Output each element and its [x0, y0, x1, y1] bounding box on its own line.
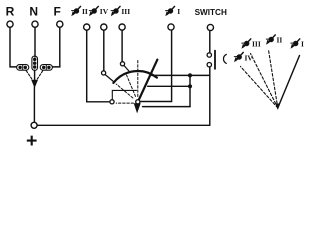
contact C (position III) [120, 62, 124, 66]
lamp icon I (top row) [165, 6, 174, 16]
contact A (position II) [110, 100, 114, 104]
lamp icon IV (top row) [89, 6, 98, 16]
indicator lamp IV (fan) [234, 52, 243, 62]
wire N winding to armature [34, 70, 36, 79]
dashed ray to IV [241, 67, 278, 108]
terminal F [57, 21, 63, 27]
terminal lamp IV [101, 24, 107, 30]
wire switch terminal down [209, 31, 211, 53]
svg-text:IV: IV [245, 54, 254, 63]
dashed radius to contact B [116, 84, 133, 98]
dashed ray to II [269, 50, 278, 108]
lamp icon III (top row) [111, 6, 120, 16]
svg-text:I: I [301, 40, 304, 49]
terminal lamp I [168, 24, 174, 30]
bottom bus wire [37, 124, 210, 126]
lamp icon II (top row) [71, 6, 80, 16]
terminal lamp III [119, 24, 125, 30]
wire armature to plus terminal [33, 87, 35, 122]
coil element middle (N winding, vertical) [32, 56, 38, 70]
dashed radius to contact A [116, 102, 133, 104]
wire switch lower contact to bus [209, 67, 211, 125]
svg-text:+: + [26, 130, 37, 147]
wire lamp IV down to contact B [103, 30, 105, 71]
solid ray to I [278, 56, 300, 108]
wire wiper to jumper (wire2) [148, 85, 190, 87]
svg-text:III: III [121, 7, 130, 16]
wire F down [52, 27, 59, 67]
terminal N [32, 21, 38, 27]
fan convergence arrow [275, 104, 280, 111]
jumper vertical [189, 75, 191, 106]
indicator lamp III (fan) [242, 39, 251, 49]
junction dot wire2 [188, 84, 192, 88]
link contact C to arc [124, 66, 130, 73]
switch blade [214, 51, 216, 69]
selector pivot [136, 100, 140, 104]
wire N down [34, 27, 36, 57]
svg-text:II: II [277, 36, 283, 45]
dashed link F winding to armature [37, 71, 43, 80]
switch upper contact [207, 53, 211, 57]
svg-text:R: R [6, 5, 15, 19]
wire R down [10, 27, 16, 67]
svg-text:IV: IV [100, 7, 109, 16]
terminal plus [31, 122, 37, 128]
svg-text:N: N [29, 5, 38, 19]
wire3 to wiper tail [143, 106, 190, 108]
dashed radius to contact C [127, 75, 136, 96]
coil element right (F winding) [40, 65, 52, 71]
terminal switch [207, 24, 213, 30]
svg-text:III: III [252, 40, 261, 49]
wire lamp III down to contact C [121, 30, 123, 62]
switch plug hook [223, 54, 226, 63]
wire lamp I down and left to pivot [140, 30, 171, 101]
svg-text:SWITCH: SWITCH [195, 8, 227, 17]
selector wiper arm [138, 60, 158, 102]
terminal R [7, 21, 13, 27]
wire arc end to switch branch (wire1) [152, 74, 210, 76]
junction dot wire1 [188, 73, 192, 77]
stub wire from contact A up [112, 90, 136, 99]
dashed ray to III [251, 54, 278, 108]
link contact B to arc [105, 75, 114, 83]
selector arc [113, 71, 156, 83]
dashed link R winding to armature [26, 71, 32, 80]
svg-text:II: II [82, 7, 88, 16]
wiper counterweight [134, 103, 141, 113]
contact B (position IV) [102, 71, 106, 75]
dashed radius vertical [137, 61, 139, 97]
indicator lamp I (fan) [291, 39, 300, 49]
svg-text:I: I [177, 7, 180, 16]
indicator lamp II (fan) [266, 35, 275, 45]
coil element left (R winding) [17, 65, 29, 71]
svg-text:F: F [54, 5, 61, 19]
armature arrow [31, 80, 38, 88]
switch lower contact [207, 62, 211, 66]
wire lamp II down and right to contact A [87, 30, 110, 102]
terminal lamp II [84, 24, 90, 30]
